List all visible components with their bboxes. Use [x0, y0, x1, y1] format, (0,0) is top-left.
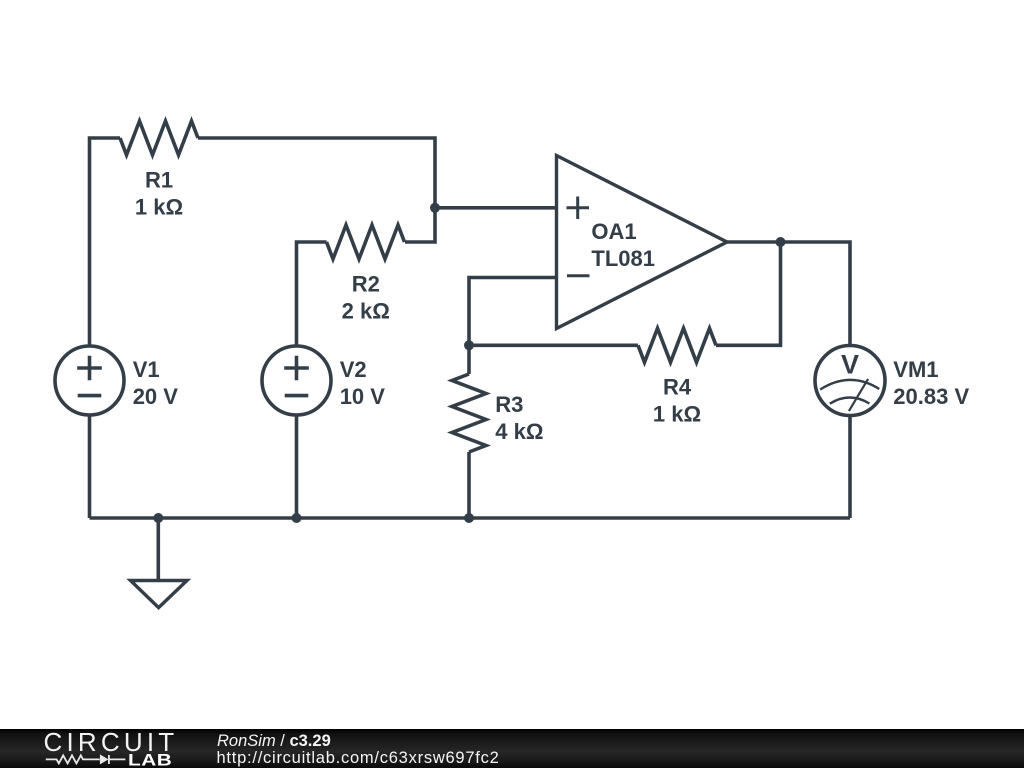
svg-text:R4: R4: [663, 374, 692, 399]
wire V2 minus to rail: [295, 415, 299, 518]
wire op-amp output to VM1 top: [727, 242, 850, 346]
svg-text:R2: R2: [352, 272, 380, 297]
wire V1 plus to R1 left lead: [90, 138, 121, 346]
voltage source V1: [55, 346, 124, 415]
wire R2 left lead to V2 plus: [297, 242, 327, 346]
svg-text:V: V: [841, 350, 859, 380]
svg-text:V1: V1: [133, 357, 160, 382]
wire op-amp inverting input to node B: [469, 278, 557, 346]
wire node A to op-amp non-inverting input: [435, 206, 557, 210]
resistor R1: [120, 121, 198, 155]
svg-text:20.83 V: 20.83 V: [893, 384, 969, 409]
svg-text:OA1: OA1: [591, 219, 636, 244]
svg-text:LAB: LAB: [128, 750, 172, 768]
label R3 4 kOhm: [495, 392, 543, 444]
svg-text:2 kΩ: 2 kΩ: [342, 299, 390, 324]
footer url: [217, 749, 500, 768]
CircuitLab logo: [0, 729, 200, 768]
svg-text:V2: V2: [340, 357, 367, 382]
node V2 rail junction: [292, 513, 302, 523]
wire V1 minus to rail: [88, 415, 92, 518]
ground: [131, 581, 188, 608]
wire node B to R3 top: [467, 345, 471, 374]
node ground junction: [153, 513, 163, 523]
svg-text:4 kΩ: 4 kΩ: [495, 419, 543, 444]
label VM1 20.83 V: [893, 357, 969, 409]
label V2 10 V: [340, 357, 386, 409]
wire R1 right to node A and down to R2: [198, 138, 435, 242]
svg-text:R3: R3: [495, 392, 523, 417]
svg-text:R1: R1: [145, 168, 173, 193]
node C junction: [776, 237, 786, 247]
resistor R3: [452, 374, 486, 452]
svg-text:10 V: 10 V: [340, 384, 386, 409]
voltage source V2: [262, 346, 331, 415]
label R2 2 kOhm: [342, 272, 390, 324]
svg-text:VM1: VM1: [893, 357, 938, 382]
footer title RonSim / c3.29: [217, 732, 331, 751]
voltmeter VM1: [815, 346, 885, 416]
svg-text:1 kΩ: 1 kΩ: [135, 195, 183, 220]
node B junction: [464, 340, 474, 350]
label R4 1 kOhm: [653, 374, 701, 426]
node R3 rail junction: [464, 513, 474, 523]
svg-text:20 V: 20 V: [133, 384, 179, 409]
label R1 1 kOhm: [135, 168, 183, 220]
wire R4 left lead to node B: [469, 343, 638, 347]
label V1 20 V: [133, 357, 179, 409]
resistor R4: [638, 328, 716, 362]
wire ground stub: [157, 518, 161, 581]
wire R3 bottom to ground rail: [467, 452, 471, 518]
wire VM1 bottom to rail: [848, 415, 852, 518]
op-amp OA1: [557, 156, 728, 329]
footer bar: [0, 729, 1024, 768]
resistor R2: [327, 225, 405, 259]
wire bottom ground rail: [90, 516, 851, 520]
node A junction: [430, 203, 440, 213]
label OA1 TL081: [591, 219, 655, 271]
svg-text:TL081: TL081: [591, 246, 655, 271]
wire feedback from node C down to R4 right lead: [716, 242, 781, 345]
svg-text:1 kΩ: 1 kΩ: [653, 401, 701, 426]
